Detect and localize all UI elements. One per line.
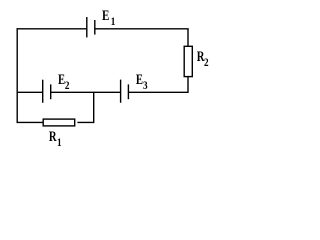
resistor R1 (43, 119, 74, 126)
circuit schematic: two-mesh network with E1, E2, E3 batteries and R1, R2 resistors (0, 0, 215, 151)
wire junction drop (junction J down to R1 branch) (93, 92, 95, 123)
label R1 (49, 128, 62, 149)
svg-text:3: 3 (143, 80, 148, 92)
label R2 (197, 49, 209, 70)
svg-text:R: R (49, 128, 57, 144)
wire right lower (R2 to middle branch) (187, 77, 189, 93)
wire middle-center (E2 to E3 through junction J) (51, 91, 121, 93)
label E2 (58, 71, 69, 92)
wire bottom-left (left rail to R1) (17, 121, 43, 123)
label E1 (102, 6, 115, 28)
wire bottom-right (R1 to junction drop) (77, 121, 93, 123)
svg-text:E: E (58, 71, 65, 87)
svg-text:E: E (102, 6, 110, 23)
wire left side (16, 28, 18, 123)
svg-text:E: E (136, 71, 143, 87)
wire top-right (E1 short plate to node B) (95, 28, 189, 30)
svg-text:2: 2 (65, 80, 70, 92)
battery E2 (42, 80, 44, 103)
wire middle-left (left rail to E2) (17, 91, 43, 93)
svg-text:1: 1 (57, 137, 62, 149)
wire top-left (node A to E1 long plate) (17, 28, 87, 30)
wire right upper (node B down to R2) (187, 29, 189, 47)
wire middle-right (E3 to R2 bottom corner) (128, 91, 188, 93)
resistor R2 (184, 46, 192, 76)
svg-text:1: 1 (111, 16, 116, 28)
battery E1 (86, 17, 88, 37)
battery E3 (120, 80, 122, 103)
label E3 (136, 71, 148, 92)
svg-text:2: 2 (204, 57, 209, 69)
